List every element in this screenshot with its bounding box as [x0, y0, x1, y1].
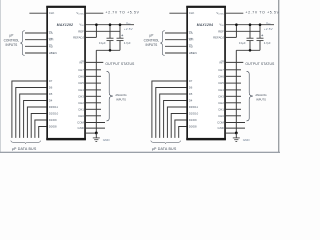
- svg-text:CH6: CH6: [218, 74, 224, 78]
- wire RD: [165, 45, 187, 47]
- ground symbol: [235, 133, 237, 138]
- svg-text:CH7: CH7: [78, 68, 84, 72]
- svg-text:+2.7V TO +5.5V: +2.7V TO +5.5V: [245, 10, 279, 14]
- svg-text:CH0: CH0: [218, 114, 224, 118]
- wire ground return vertical: [235, 50, 237, 133]
- wire CH1: [86, 108, 101, 110]
- junction dot VDD/REFADJ: [235, 23, 238, 26]
- wire WR: [165, 39, 187, 41]
- wire data bit D3/D11: [27, 107, 46, 138]
- svg-text:REF: REF: [78, 29, 84, 33]
- brace uP data bus: [11, 141, 41, 144]
- svg-text:D6: D6: [189, 86, 193, 90]
- svg-text:CH3: CH3: [78, 94, 84, 98]
- wire data bit D1/D9: [175, 120, 187, 138]
- wire data bit D5: [160, 94, 187, 138]
- ADC MAX1294 U1 body: [187, 7, 225, 140]
- svg-text:+2.7V TO +5.5V: +2.7V TO +5.5V: [105, 10, 139, 14]
- wire CH3: [226, 95, 241, 97]
- svg-text:REFADJ: REFADJ: [73, 35, 84, 39]
- wire data bit D7: [152, 81, 187, 138]
- brace uP control inputs: [20, 31, 24, 56]
- svg-text:CH4: CH4: [218, 88, 224, 92]
- wire CH2: [226, 102, 241, 104]
- wire ground return vertical: [95, 50, 97, 133]
- svg-text:4.7μF: 4.7μF: [264, 41, 271, 45]
- brace analog inputs: [107, 71, 113, 121]
- svg-text:GND: GND: [77, 126, 83, 130]
- wire CH4: [226, 89, 241, 91]
- svg-text:D5: D5: [49, 92, 53, 96]
- ADC MAX1292 U1 thick top edge: [46, 6, 86, 8]
- wire GND stub: [86, 127, 105, 129]
- svg-text:INPUTS: INPUTS: [116, 98, 126, 102]
- junction dot VDD/C2: [259, 23, 262, 26]
- wire INT: [86, 61, 104, 63]
- page border right: [278, 0, 279, 153]
- junction dot VDD/C1: [249, 23, 252, 26]
- svg-text:D3/D11: D3/D11: [189, 105, 199, 109]
- svg-text:μP: μP: [149, 34, 153, 38]
- ADC MAX1294 U1 thick top edge: [186, 6, 226, 8]
- svg-text:HBEN: HBEN: [49, 51, 57, 55]
- wire data bit D5: [20, 94, 47, 138]
- svg-text:CH5: CH5: [78, 81, 84, 85]
- svg-text:D4: D4: [49, 99, 53, 103]
- wire data bit D4: [24, 101, 47, 138]
- capacitor C1 0.1uF: [107, 37, 114, 39]
- svg-text:4.7μF: 4.7μF: [124, 41, 131, 45]
- wire CH6: [226, 75, 241, 77]
- wire CS: [25, 32, 47, 34]
- wire CH0: [226, 115, 241, 117]
- brace analog inputs: [247, 71, 253, 121]
- junction dot VDD/REFADJ: [95, 23, 98, 26]
- wire CH3: [86, 95, 101, 97]
- ADC MAX1292 U1 body: [47, 7, 85, 140]
- wire ground tie: [86, 132, 97, 134]
- wire VDD rail: [226, 24, 274, 26]
- junction dot C1/gnd rail: [109, 49, 112, 52]
- wire CH7: [226, 69, 241, 71]
- wire C2 to gnd rail: [119, 41, 121, 51]
- wire CLK stub: [169, 12, 186, 14]
- svg-text:0.1μF: 0.1μF: [99, 41, 106, 45]
- page background: [0, 0, 280, 156]
- wire CH1: [226, 108, 241, 110]
- svg-text:μP DATA BUS: μP DATA BUS: [12, 147, 37, 151]
- svg-text:CH0: CH0: [78, 114, 84, 118]
- wire CH5: [226, 82, 241, 84]
- svg-text:CH7: CH7: [218, 68, 224, 72]
- svg-text:CLK: CLK: [189, 11, 195, 15]
- wire VDD to REFADJ: [95, 25, 97, 38]
- plus sign of C2: [261, 34, 263, 36]
- wire COM: [86, 122, 105, 124]
- wire VDD rail: [86, 24, 134, 26]
- wire CH4: [86, 89, 101, 91]
- junction dot ground node: [235, 131, 238, 134]
- svg-text:0.1μF: 0.1μF: [239, 41, 246, 45]
- wire data bit D1/D9: [35, 120, 47, 138]
- junction dot C1/gnd rail: [249, 49, 252, 52]
- plus sign of C2: [121, 34, 123, 36]
- svg-text:CH2: CH2: [218, 101, 224, 105]
- svg-text:D3/D11: D3/D11: [49, 105, 59, 109]
- svg-text:D5: D5: [189, 92, 193, 96]
- svg-text:OUTPUT STATUS: OUTPUT STATUS: [105, 62, 135, 66]
- svg-text:CH6: CH6: [78, 74, 84, 78]
- svg-text:REFADJ: REFADJ: [213, 35, 224, 39]
- svg-text:D6: D6: [49, 86, 53, 90]
- svg-text:CH5: CH5: [218, 81, 224, 85]
- wire data bit D3/D11: [167, 107, 186, 138]
- wire VLOGIC supply: [86, 12, 104, 14]
- ADC MAX1294 U1 thick bottom edge: [186, 138, 226, 140]
- svg-text:CH4: CH4: [78, 88, 84, 92]
- wire ground tie: [226, 132, 237, 134]
- svg-text:D0/D8: D0/D8: [49, 125, 57, 129]
- svg-text:CONTROL: CONTROL: [4, 38, 20, 42]
- wire VDD to C1: [109, 25, 111, 39]
- wire C1 to gnd rail: [109, 41, 111, 51]
- wire COM: [226, 122, 245, 124]
- capacitor C2 4.7uF: [257, 37, 264, 39]
- wire data bit D6: [156, 88, 187, 138]
- capacitor C1 0.1uF: [247, 37, 254, 39]
- svg-text:MAX1294: MAX1294: [197, 23, 213, 27]
- svg-text:CLK: CLK: [49, 11, 55, 15]
- junction dot VDD/C2: [119, 23, 122, 26]
- wire data bit D0/D8: [179, 127, 187, 138]
- wire data bit D2/D10: [31, 114, 46, 138]
- svg-text:CONTROL: CONTROL: [144, 38, 160, 42]
- brace uP data bus: [151, 141, 181, 144]
- svg-text:CH3: CH3: [218, 94, 224, 98]
- svg-text:D2/D10: D2/D10: [189, 112, 199, 116]
- wire CS: [165, 32, 187, 34]
- svg-text:INPUTS: INPUTS: [6, 43, 18, 47]
- wire data bit D6: [16, 88, 47, 138]
- svg-text:HBEN: HBEN: [189, 51, 197, 55]
- wire C2 to gnd rail: [259, 41, 261, 51]
- wire ground rail under caps: [96, 49, 120, 51]
- wire CLK stub: [29, 12, 46, 14]
- wire CH6: [86, 75, 101, 77]
- svg-text:ANALOG: ANALOG: [115, 93, 126, 97]
- svg-text:D1/D9: D1/D9: [49, 118, 57, 122]
- wire data bit D2/D10: [171, 114, 186, 138]
- ADC MAX1292 U1 thick bottom edge: [46, 138, 86, 140]
- svg-text:INPUTS: INPUTS: [256, 98, 266, 102]
- wire WR: [25, 39, 47, 41]
- wire data bit D7: [12, 81, 47, 138]
- svg-text:GND: GND: [243, 138, 251, 142]
- wire VDD to REFADJ: [235, 25, 237, 38]
- svg-text:D2/D10: D2/D10: [49, 112, 59, 116]
- brace uP control inputs: [160, 31, 164, 56]
- wire VDD to C2: [259, 25, 261, 39]
- svg-text:COM: COM: [77, 121, 84, 125]
- junction dot ground node: [95, 131, 98, 134]
- svg-text:+2.5V: +2.5V: [264, 27, 273, 31]
- wire GND stub: [226, 127, 245, 129]
- svg-text:CH2: CH2: [78, 101, 84, 105]
- svg-text:D1/D9: D1/D9: [189, 118, 197, 122]
- svg-text:D7: D7: [189, 79, 193, 83]
- wire REF: [86, 30, 120, 32]
- wire RD: [25, 45, 47, 47]
- wire HBEN: [25, 52, 47, 54]
- wire HBEN: [165, 52, 187, 54]
- wire VLOGIC supply: [226, 12, 244, 14]
- capacitor C2 4.7uF: [117, 37, 124, 39]
- svg-text:COM: COM: [217, 121, 224, 125]
- wire CH7: [86, 69, 101, 71]
- svg-text:MAX1292: MAX1292: [57, 23, 73, 27]
- svg-text:OUTPUT STATUS: OUTPUT STATUS: [245, 62, 275, 66]
- svg-text:INPUTS: INPUTS: [146, 43, 158, 47]
- svg-text:μP: μP: [9, 34, 13, 38]
- svg-text:ANALOG: ANALOG: [255, 93, 266, 97]
- wire CH2: [86, 102, 101, 104]
- wire REF: [226, 30, 260, 32]
- svg-text:GND: GND: [103, 138, 111, 142]
- svg-text:CH1: CH1: [218, 107, 224, 111]
- svg-text:D0/D8: D0/D8: [189, 125, 197, 129]
- wire data bit D0/D8: [39, 127, 47, 138]
- wire C1 to gnd rail: [249, 41, 251, 51]
- svg-text:+2.5V: +2.5V: [124, 27, 133, 31]
- svg-text:GND: GND: [217, 126, 223, 130]
- wire CH0: [86, 115, 101, 117]
- svg-text:D7: D7: [49, 79, 53, 83]
- ground symbol: [95, 133, 97, 138]
- svg-text:CH1: CH1: [78, 107, 84, 111]
- wire VDD to C1: [249, 25, 251, 39]
- wire REFADJ: [86, 36, 97, 38]
- svg-text:REF: REF: [218, 29, 224, 33]
- wire CH5: [86, 82, 101, 84]
- wire INT: [226, 61, 244, 63]
- wire ground rail under caps: [236, 49, 260, 51]
- wire REFADJ: [226, 36, 237, 38]
- wire data bit D4: [164, 101, 187, 138]
- wire VDD to C2: [119, 25, 121, 39]
- page border left: [0, 0, 2, 153]
- junction dot VDD/C1: [109, 23, 112, 26]
- svg-text:D4: D4: [189, 99, 193, 103]
- page border bottom: [0, 152, 280, 153]
- svg-text:μP DATA BUS: μP DATA BUS: [152, 147, 177, 151]
